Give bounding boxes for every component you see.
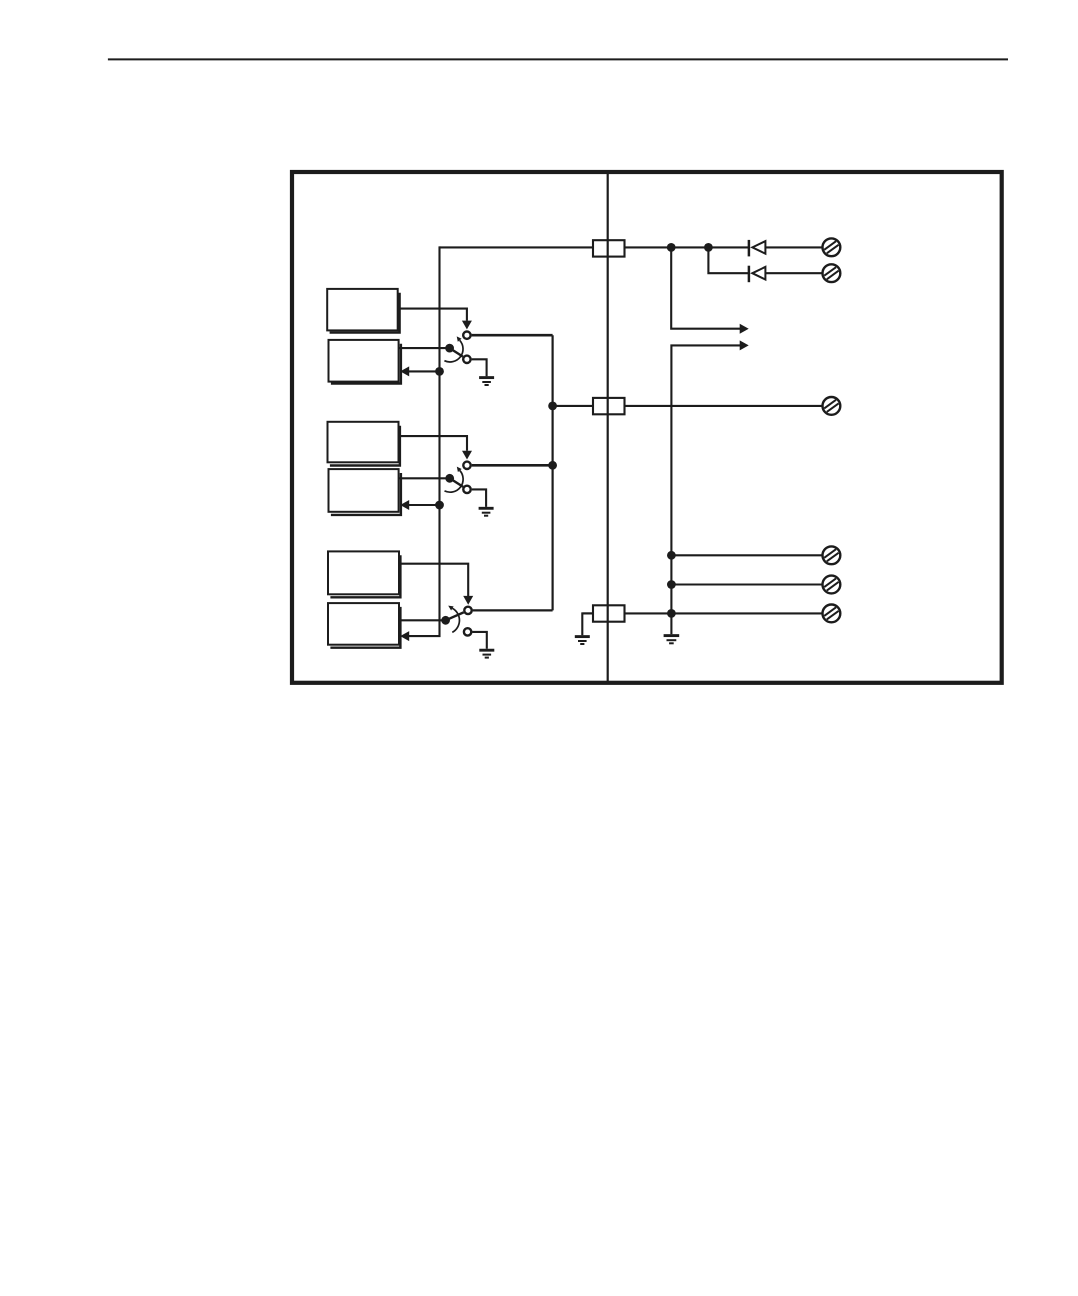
wire box B4 output to switch S2 pole bbox=[399, 477, 450, 479]
switch S2 pole junction bbox=[445, 474, 454, 483]
wire switch S3 output bbox=[473, 609, 553, 611]
wire switch S2 NC contact to ground bbox=[472, 489, 486, 507]
switch S1 arc arrowhead bbox=[457, 336, 462, 341]
switch S3 pole junction bbox=[441, 616, 450, 625]
terminal screw T5 bbox=[823, 576, 841, 594]
arrow down into switch S2 bbox=[462, 451, 472, 460]
connector X2 bbox=[593, 398, 625, 414]
junction on bus at arrow row B4 bbox=[435, 501, 444, 510]
wire switch S1 output (thick) bbox=[472, 334, 553, 337]
switch S2 motion arc bbox=[445, 471, 464, 493]
wire arrow into box B2 bbox=[409, 370, 440, 372]
junction bus S2 row bbox=[548, 461, 557, 470]
wire from node to diode D2 row bbox=[708, 247, 822, 273]
switch S2 bottom contact bbox=[463, 486, 470, 493]
junction T5 row bbox=[667, 580, 676, 589]
terminal screw T2 bbox=[823, 264, 841, 282]
arrow into box B6 bbox=[400, 631, 409, 641]
box B3 bbox=[328, 422, 400, 466]
terminal screw T1 bbox=[823, 238, 841, 256]
junction T6 row bbox=[667, 609, 676, 618]
junction node top 1 bbox=[667, 243, 676, 252]
wire box B3 output to switch S2 bbox=[399, 436, 467, 451]
terminal screw T4 bbox=[823, 546, 841, 564]
switch S3 arc arrowhead bbox=[448, 606, 453, 611]
junction node top 2 bbox=[704, 243, 713, 252]
switch S2 top contact bbox=[463, 462, 470, 469]
wire vertical bus right bbox=[551, 335, 553, 610]
box B4 bbox=[329, 469, 401, 515]
wire arrow into box B4 bbox=[409, 504, 440, 506]
switch S1 blade bbox=[450, 348, 463, 357]
ground G2 bbox=[479, 508, 494, 515]
wire box B5 output to switch S3 bbox=[399, 564, 468, 596]
arrow down into switch S1 bbox=[462, 321, 472, 330]
diode D2 bbox=[749, 266, 766, 283]
wire switch S2 output (thick) bbox=[472, 464, 553, 467]
wire switch S3 NC contact to ground bbox=[472, 632, 487, 649]
diode D1 bbox=[749, 240, 766, 257]
switch S2 arc arrowhead bbox=[457, 467, 462, 472]
switch S3 bottom contact bbox=[464, 628, 471, 635]
arrow down into switch S3 bbox=[463, 596, 473, 605]
terminal screw T6 bbox=[823, 605, 841, 623]
junction T4 row bbox=[667, 551, 676, 560]
wire vertical bus left with arrow into box B6 bbox=[409, 246, 440, 636]
switch S3 blade bbox=[446, 612, 464, 620]
wire bus top: node to connector X1 row bbox=[440, 246, 823, 248]
junction on bus at arrow row B2 bbox=[435, 367, 444, 376]
switch S1 pole junction bbox=[445, 344, 454, 353]
ground G5 bbox=[664, 636, 680, 644]
frame border bbox=[292, 172, 1002, 683]
divider line bbox=[607, 172, 609, 683]
ground G1 bbox=[479, 378, 494, 385]
arrow into box B4 bbox=[400, 500, 409, 510]
wire connector X3 stub to ground bbox=[582, 613, 593, 635]
box B1 bbox=[327, 289, 399, 333]
wire connector X2 row bbox=[553, 405, 823, 407]
box B2 bbox=[329, 340, 401, 384]
switch S1 bottom contact bbox=[463, 356, 470, 363]
arrow right 2 bbox=[740, 340, 749, 350]
switch S3 top contact bbox=[464, 607, 471, 614]
wire box B2 output to switch S1 pole bbox=[399, 347, 450, 349]
wire terminal row T5 bbox=[671, 583, 822, 585]
arrow right 1 bbox=[740, 324, 749, 334]
wire from right arrow 2 down to lower terminal rows bbox=[671, 345, 740, 613]
switch S2 blade bbox=[450, 478, 463, 487]
box B6 bbox=[328, 603, 400, 648]
terminal screw T3 bbox=[823, 397, 841, 415]
wire junction T6 to ground bbox=[670, 613, 672, 634]
switch S3 motion arc bbox=[452, 608, 459, 632]
switch S1 top contact bbox=[463, 332, 470, 339]
wire terminal row T6 / connector X3 row bbox=[582, 612, 822, 614]
connector X1 bbox=[593, 240, 625, 256]
wire box B6 output to switch S3 pole bbox=[399, 619, 446, 621]
switch S1 motion arc bbox=[444, 340, 463, 362]
ground G4 bbox=[575, 637, 590, 644]
junction bus X2 row bbox=[548, 402, 557, 411]
wire terminal row T4 bbox=[671, 554, 822, 556]
header rule bbox=[108, 58, 1008, 60]
box B5 bbox=[328, 551, 400, 597]
wire switch S1 NC contact to ground bbox=[472, 359, 487, 376]
wire to right arrow 1 bbox=[671, 247, 740, 328]
arrow into box B2 bbox=[400, 366, 409, 376]
wire box B1 output to switch S1 bbox=[398, 309, 467, 321]
connector X3 bbox=[593, 605, 625, 621]
ground G3 bbox=[479, 650, 494, 657]
